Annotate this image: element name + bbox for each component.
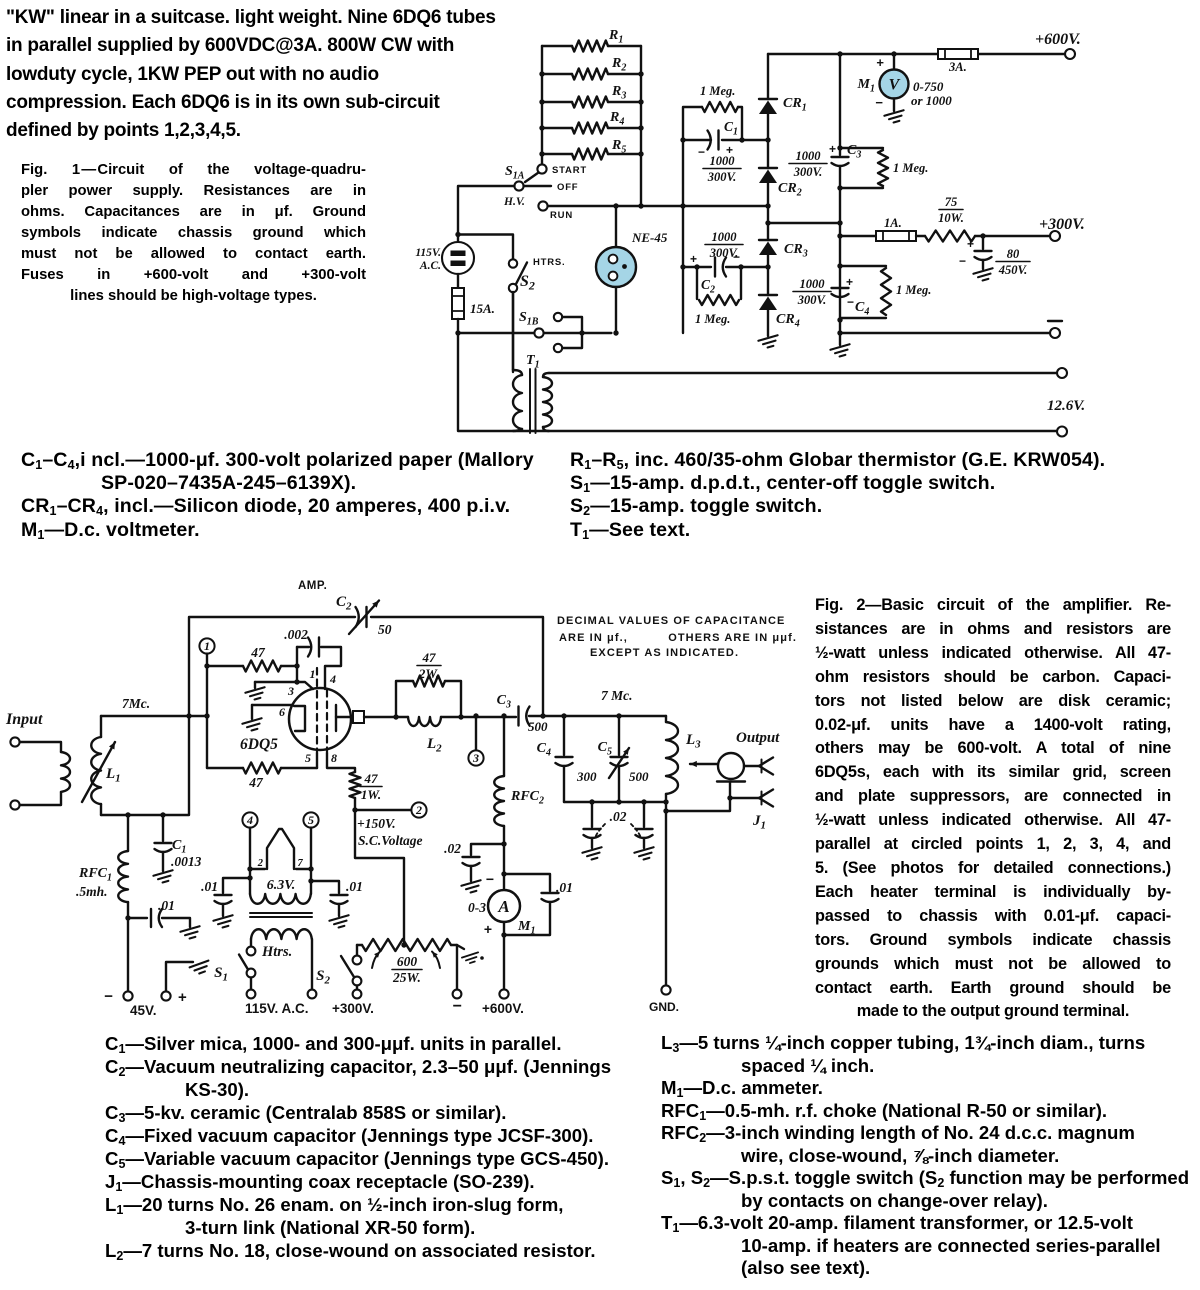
diode CR4 [759,294,777,296]
svg-text:1000: 1000 [712,230,738,244]
resistor 75 ohm 10W [916,235,925,237]
thermistor ladder right bus [640,46,642,206]
bottom tank node wire [564,801,666,803]
L1 bottom wire [125,812,130,817]
capacitor C1 [683,139,711,141]
svg-text:ARE IN μf.,: ARE IN μf., [559,632,628,644]
svg-text:+: + [846,275,853,289]
svg-text:CR2: CR2 [778,181,802,199]
node 3 stub [475,716,477,750]
svg-text:0-750: 0-750 [913,79,944,94]
svg-text:Output: Output [736,730,780,746]
svg-text:C2: C2 [701,277,715,296]
svg-text:47: 47 [248,775,264,790]
svg-text:S.C.Voltage: S.C.Voltage [358,833,423,848]
svg-text:S1B: S1B [519,310,539,328]
arrow through L1 [82,742,115,802]
node 1 circle [199,638,214,653]
svg-text:2W.: 2W. [418,666,439,681]
T1 primary winding [512,292,514,370]
terminal 12.6V top [1057,368,1067,378]
T1 secondary winding [543,373,549,377]
svg-text:.0013: .0013 [171,854,202,869]
coupling capacitor .002 [297,646,309,648]
svg-text:T1: T1 [526,353,540,371]
svg-text:A.C.: A.C. [419,260,441,272]
node 4 circle [242,812,257,827]
wire plug to fuse [457,274,459,288]
ground below M1 [893,99,895,112]
plate cap connector [353,711,364,723]
lower bus wire [458,332,534,334]
svg-text:GND.: GND. [649,1000,679,1014]
svg-text:.5mh.: .5mh. [76,884,108,899]
svg-text:25W.: 25W. [392,970,421,985]
svg-text:R2: R2 [611,56,626,74]
wire NE-45 bottom [615,287,617,333]
svg-text:1W.: 1W. [361,787,381,802]
svg-text:RFC1: RFC1 [78,866,112,884]
svg-text:12.6V.: 12.6V. [1047,398,1085,414]
svg-text:1 Meg.: 1 Meg. [893,161,928,175]
svg-text:Htrs.: Htrs. [261,944,292,960]
svg-text:OFF: OFF [557,182,578,193]
svg-text:115V.: 115V. [415,247,441,259]
svg-text:1 Meg.: 1 Meg. [695,312,730,326]
svg-text:1A.: 1A. [884,216,902,230]
svg-text:C1: C1 [172,838,186,856]
fuse 15A [452,288,464,319]
shield wire [666,782,730,812]
svg-text:2: 2 [415,803,422,817]
svg-text:7 Mc.: 7 Mc. [601,688,633,703]
svg-text:600: 600 [397,954,418,969]
svg-text:RUN: RUN [550,210,573,221]
switch S1A arm [525,173,539,183]
svg-text:1000: 1000 [710,154,736,168]
tube grid dashed 4 [326,690,328,753]
fuse 1A [840,235,876,237]
capacitor C4 [832,287,849,289]
svg-text:15A.: 15A. [470,301,495,316]
svg-text:C1: C1 [724,119,738,138]
svg-text:6DQ5: 6DQ5 [240,736,278,753]
svg-text:0-3: 0-3 [468,900,486,915]
svg-text:−: − [486,871,494,887]
bypass .02 left [591,802,593,827]
wire bottom return line [458,333,1057,431]
meter M1 ammeter [488,890,520,922]
svg-text:L3: L3 [685,732,701,751]
svg-text:500: 500 [629,769,649,784]
bypass .01 at meter [504,874,550,891]
neutralizing capacitor C2 [365,607,367,627]
svg-text:1000: 1000 [800,277,826,291]
svg-text:1: 1 [204,639,210,653]
svg-text:−: − [847,295,854,309]
diode CR1 [759,98,777,100]
svg-text:.02: .02 [610,809,627,824]
wire S2 to T1 primary [512,292,514,372]
svg-text:+150V.: +150V. [357,816,396,831]
svg-text:+: + [178,989,187,1006]
svg-text:50: 50 [378,622,392,637]
svg-text:S1: S1 [214,965,228,984]
svg-text:L1: L1 [105,766,121,785]
svg-text:M1: M1 [857,77,875,95]
wire secondary left to S1 [250,939,252,946]
switch S1B center contact [534,328,543,337]
svg-text:5: 5 [305,751,311,765]
neon lamp NE-45 [596,247,636,287]
svg-text:CR1: CR1 [783,96,807,114]
J1 fork [730,797,759,799]
ground stub at 600 ohm [457,945,464,949]
svg-text:+600V.: +600V. [1035,31,1081,48]
svg-text:M1: M1 [517,919,535,937]
svg-text:or 1000: or 1000 [911,93,952,108]
svg-text:.02: .02 [444,841,461,856]
svg-text:NE-45: NE-45 [631,230,668,245]
T1 secondary winding [251,929,312,939]
svg-text:OTHERS ARE IN μμf.: OTHERS ARE IN μμf. [668,632,797,644]
meter shunt wire [503,844,505,890]
suppressor resistor 47 2W [396,681,413,717]
wire meter to +600 terminal [503,922,505,989]
terminal 12.6V bottom [1057,427,1067,437]
resistor R5 [542,153,572,155]
right bus +300 section [839,54,841,155]
svg-text:45V.: 45V. [130,1003,157,1018]
capacitor 80/450V [982,236,984,249]
node 2 wire [355,798,411,810]
bleeder 1 Meg for C3 [840,147,883,149]
svg-text:47: 47 [422,650,437,665]
RFC1 choke [127,815,129,851]
svg-text:S1A: S1A [505,164,525,182]
svg-text:+: + [829,142,836,156]
plate choke RFC2 [503,716,505,776]
output coax connector [718,753,744,779]
svg-text:3: 3 [287,684,294,698]
svg-text:S2: S2 [316,968,330,987]
node 5 circle [303,812,318,827]
svg-text:+: + [690,252,697,266]
heater switch S2 [509,259,517,267]
wire right bus [839,223,841,333]
+600V top wire [768,53,1065,55]
svg-text:47: 47 [364,771,379,786]
tank capacitor C3 [517,707,519,726]
grid resistor 47 top [207,665,243,667]
svg-text:AMP.: AMP. [298,580,327,592]
ground below 80uF cap [973,268,995,282]
wire cap to grid node [296,647,298,682]
pin5 lead [316,753,318,768]
svg-text:300V.: 300V. [793,165,823,179]
svg-text:1 Meg.: 1 Meg. [896,283,931,297]
input terminals [10,737,19,746]
svg-text:500: 500 [528,719,548,734]
output node wire [529,715,666,717]
svg-text:R4: R4 [609,110,624,128]
T1 core [250,912,312,914]
node 2 circle [411,802,426,817]
svg-text:2: 2 [257,858,264,869]
svg-text:6: 6 [279,705,285,719]
svg-text:C3: C3 [497,693,511,711]
parasitic choke L2 [408,717,441,726]
blocking capacitor C1 [162,815,164,841]
switch S1A RUN contact [538,201,547,210]
svg-text:−: − [959,254,966,268]
grid 3 wire with ground [255,681,297,683]
node 1 vertical wire [206,654,208,768]
bypass .01 left of T1 [223,878,250,893]
svg-text:−: − [733,250,740,264]
svg-text:A: A [497,897,509,916]
svg-text:R5: R5 [611,138,626,156]
svg-text:CR4: CR4 [776,312,800,330]
svg-text:C2: C2 [336,594,352,613]
screen resistor 47 1W [350,772,361,798]
tube 6DQ5 envelope [289,688,351,750]
wire CR string to +300 bus [768,222,840,224]
svg-text:C4: C4 [537,741,551,759]
svg-text:+300V.: +300V. [1039,216,1085,233]
svg-text:Input: Input [5,711,43,728]
ground below C4 node [839,333,841,345]
svg-text:START: START [552,165,587,176]
svg-text:+300V.: +300V. [332,1001,374,1016]
screen supply wire down [355,810,404,945]
switch S1A OFF contact [514,181,523,190]
svg-text:C4: C4 [855,300,869,318]
terminal minus output [840,332,1050,334]
T1 core [529,369,531,433]
wire secondary right to terminal [311,939,313,990]
svg-text:47: 47 [250,645,266,660]
wire C1 node vertical [682,140,684,333]
diode CR3 [759,239,777,241]
switch S1A pole [537,164,546,173]
output fork top [744,765,759,767]
svg-text:80: 80 [1007,247,1020,261]
resistor R3 [542,101,572,103]
grid wire 7Mc [101,715,207,717]
fuse 3A [938,49,978,59]
RUN bus wire [548,205,768,207]
variable vacuum capacitor C5 [618,716,620,755]
bleeder 1 Meg for C4 [840,265,886,267]
svg-text:8: 8 [331,751,337,765]
svg-text:R1: R1 [608,28,623,46]
svg-text:RFC2: RFC2 [510,789,544,807]
svg-text:−: − [875,95,883,110]
tube cathode/grid hook [294,706,305,731]
T1 leads [249,828,251,894]
terminal 45V minus [123,991,132,1000]
svg-text:4: 4 [246,813,253,827]
terminal +300V [983,235,1050,237]
svg-text:4: 4 [329,672,336,686]
tube plate bar [335,705,337,731]
wire to bias terminal [127,918,129,991]
T1 pin line and tent [250,868,265,870]
svg-text:L2: L2 [426,736,442,755]
resistor R2 [542,73,572,75]
terminal minus600 [453,990,462,999]
voltmeter M1 [893,54,895,70]
resistor R1 [542,45,572,47]
top feedback wire [101,617,355,815]
svg-text:3A.: 3A. [948,60,967,74]
svg-text:EXCEPT AS INDICATED.: EXCEPT AS INDICATED. [590,647,739,659]
bias plus ground bracket [166,962,193,991]
svg-text:.01: .01 [158,898,175,913]
cathode resistor 47 bottom [207,767,243,769]
svg-text:H.V.: H.V. [503,196,525,208]
tube grid dashed 1 [316,668,318,753]
svg-text:115V. A.C.: 115V. A.C. [245,1001,309,1016]
svg-text:HTRS.: HTRS. [533,257,566,268]
grid 6 wire with ground [252,704,292,706]
thermistor ladder left bus [541,46,543,164]
svg-text:C5: C5 [598,740,612,758]
svg-text:R3: R3 [611,84,626,102]
ground below CR4 [758,335,780,349]
svg-text:6.3V.: 6.3V. [267,878,296,893]
svg-text:7: 7 [298,858,304,869]
svg-text:−: − [104,988,113,1005]
ground line to GND terminal [665,802,667,985]
svg-text:V: V [889,77,901,94]
bypass .01 right of T1 [311,881,339,893]
wire to heater switch S2 [458,235,513,260]
arrow tap into L3 [690,763,718,765]
input link wires [20,742,61,752]
svg-text:CR3: CR3 [784,242,808,260]
wire NE-45 top [615,206,617,247]
fixed vacuum capacitor C4 [563,716,565,755]
screen dropping resistor 600 25W [357,944,362,946]
svg-text:300V.: 300V. [797,293,827,307]
svg-text:10W.: 10W. [938,211,964,225]
terminal GND [661,985,670,994]
rectifier string wire [767,54,769,99]
wire fuse to lower bus [457,319,459,333]
svg-text:S2: S2 [520,273,535,293]
svg-text:+: + [484,921,492,937]
svg-text:7Mc.: 7Mc. [122,696,150,711]
svg-text:C3: C3 [847,143,861,161]
svg-text:75: 75 [945,195,958,209]
switch S1 [247,947,256,956]
svg-text:1: 1 [310,667,316,681]
svg-text:+600V.: +600V. [482,1001,524,1016]
wire OFF to line input [458,186,515,241]
svg-text:5: 5 [308,813,314,827]
svg-text:3: 3 [472,751,479,765]
svg-text:.01: .01 [346,879,363,894]
svg-text:1 Meg.: 1 Meg. [700,84,735,98]
terminal +600V [1065,49,1075,59]
svg-text:.002: .002 [284,627,308,642]
svg-text:DECIMAL VALUES OF CAPACITANCE: DECIMAL VALUES OF CAPACITANCE [557,615,785,627]
115V AC plug [442,242,474,274]
wire secondary top 12.6V line [549,372,1057,374]
svg-text:+: + [967,237,974,251]
svg-text:−: − [453,998,462,1015]
tank coil L3 [665,716,667,722]
switch S2 heater [356,945,358,956]
node 3 circle [468,750,483,765]
resistor R4 [542,127,572,129]
plate wire to tank [364,716,408,718]
terminal 45V plus [161,991,170,1000]
svg-text:1000: 1000 [796,149,822,163]
capacitor C3 [832,156,849,158]
diode CR2 [759,167,777,169]
bypass .02 right [643,802,645,827]
input coil L1 [100,716,102,737]
svg-text:+: + [876,55,884,70]
bypass .01 at RFC1 [128,917,147,919]
input link coil [61,752,70,792]
svg-text:J1: J1 [752,813,766,832]
svg-text:.01: .01 [556,880,573,895]
terminal +600V [499,989,508,998]
svg-text:450V.: 450V. [998,263,1028,277]
svg-text:300V.: 300V. [707,170,737,184]
svg-text:300: 300 [576,769,597,784]
svg-text:−: − [698,145,705,159]
bypass .02 at RFC2 [471,844,504,855]
tube plate lead [336,716,351,718]
svg-text:.01: .01 [201,879,218,894]
wiper arrows 600 ohm [372,952,380,969]
pin8 lead to 47 1W [327,753,355,772]
